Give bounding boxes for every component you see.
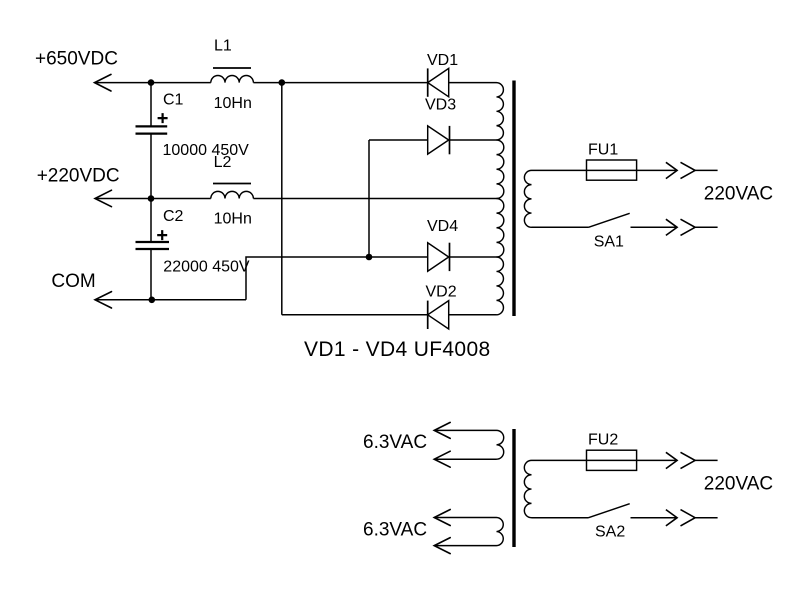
svg-text:10Hn: 10Hn [214, 95, 252, 112]
wire C2 upper lead [150, 199, 152, 243]
wire VD1 to winding [449, 82, 497, 84]
wire VD4 to winding [450, 256, 497, 258]
transformer T1 secondary winding [497, 83, 504, 315]
wire after chevrons top [695, 169, 718, 171]
fuse FU2 [587, 450, 637, 470]
svg-text:L1: L1 [214, 37, 232, 54]
svg-text:6.3VAC: 6.3VAC [363, 432, 427, 453]
wire C1 lower lead [150, 134, 152, 199]
wire switch SA2 to chevrons [631, 517, 678, 519]
svg-text:FU2: FU2 [588, 432, 618, 449]
wire 6.3VAC B top lead [434, 517, 496, 519]
wire T2 primary bottom to switch [532, 517, 589, 519]
svg-text:22000 450V: 22000 450V [163, 259, 250, 276]
transformer T2 primary winding [524, 460, 531, 517]
wire VD3 anode drop [368, 140, 370, 257]
arrow +650VDC output [95, 74, 112, 91]
svg-text:SA2: SA2 [595, 524, 625, 541]
switch SA2 [589, 504, 630, 518]
arrow COM output [95, 292, 112, 308]
wire primary bottom to switch [532, 226, 589, 228]
polarity plus C1 [158, 113, 168, 123]
arrow chevrons 220VAC line in [666, 162, 695, 178]
transformer T1 core [512, 81, 515, 317]
svg-text:+650VDC: +650VDC [35, 49, 118, 70]
svg-text:220VAC: 220VAC [704, 184, 773, 205]
wire C2 lower lead [150, 249, 152, 300]
svg-text:VD1 - VD4 UF4008: VD1 - VD4 UF4008 [304, 338, 491, 361]
wire 6.3VAC A top lead [434, 429, 496, 431]
node at C2 bottom [149, 297, 156, 304]
svg-text:L2: L2 [214, 154, 232, 171]
node at C1/C2 junction [148, 195, 155, 202]
wire T2 primary top to fuse and arrow [532, 459, 678, 461]
polarity plus C2 [157, 230, 167, 240]
wire primary top to fuse and arrow [532, 169, 678, 171]
svg-text:C1: C1 [163, 92, 184, 109]
wire L2 to transformer center tap [253, 198, 496, 200]
wire C1 upper lead [150, 83, 152, 127]
node at C1 top [148, 79, 155, 86]
wire VD3 to winding [450, 139, 497, 141]
capacitor C2 [136, 242, 170, 249]
wire L1 to VD1 [253, 82, 427, 84]
svg-text:10000 450V: 10000 450V [163, 142, 250, 159]
wire VD2 to winding [449, 314, 497, 316]
svg-text:VD2: VD2 [426, 284, 457, 301]
svg-text:220VAC: 220VAC [704, 474, 773, 495]
node VD1 rail branch [279, 79, 286, 86]
svg-text:FU1: FU1 [588, 142, 618, 159]
svg-text:VD3: VD3 [425, 97, 456, 114]
svg-text:COM: COM [51, 271, 95, 292]
switch SA1 [589, 213, 630, 227]
transformer T2 secondary winding B [497, 518, 504, 546]
diode VD2 [282, 301, 449, 329]
arrow 6.3VAC B bottom [434, 538, 450, 554]
capacitor C1 [136, 126, 168, 133]
svg-text:C2: C2 [163, 208, 184, 225]
wire 6.3VAC B bottom lead [434, 545, 496, 547]
svg-text:VD1: VD1 [427, 52, 458, 69]
wire COM up to bridge [246, 257, 369, 300]
wire after chevrons bottom [695, 226, 718, 228]
fuse FU1 [587, 160, 637, 180]
svg-text:6.3VAC: 6.3VAC [363, 520, 427, 541]
transformer T1 primary winding [524, 170, 531, 227]
inductor L2 [211, 184, 254, 199]
diode VD1 [428, 68, 449, 96]
diode VD3 [369, 126, 450, 154]
svg-text:+220VDC: +220VDC [37, 165, 120, 186]
arrow chevrons 220VAC return lower [666, 510, 695, 526]
wire after chevrons T2 top [695, 459, 718, 461]
diode VD4 [369, 243, 450, 272]
wire +650 rail left [95, 82, 211, 84]
arrow 6.3VAC A top [434, 422, 450, 438]
node VD3/VD4 anode junction [366, 254, 373, 261]
arrow chevrons 220VAC return [666, 219, 695, 235]
wire COM rail [95, 299, 246, 301]
svg-text:SA1: SA1 [594, 234, 624, 251]
arrow 6.3VAC A bottom [434, 451, 450, 467]
wire 6.3VAC A bottom lead [434, 458, 496, 460]
transformer T2 secondary winding A [497, 430, 504, 459]
svg-text:10Hn: 10Hn [214, 211, 252, 228]
inductor L1 [211, 68, 254, 83]
arrow 6.3VAC B top [434, 510, 450, 526]
transformer T2 core [512, 429, 515, 547]
arrow chevrons 220VAC line in lower [666, 452, 695, 468]
wire +650 branch down to VD2 [281, 83, 283, 315]
wire after chevrons SA2 [695, 517, 718, 519]
svg-text:VD4: VD4 [427, 218, 458, 235]
wire switch to chevrons [631, 226, 678, 228]
wire +220 rail left [95, 198, 211, 200]
arrow +220VDC output [95, 190, 112, 207]
